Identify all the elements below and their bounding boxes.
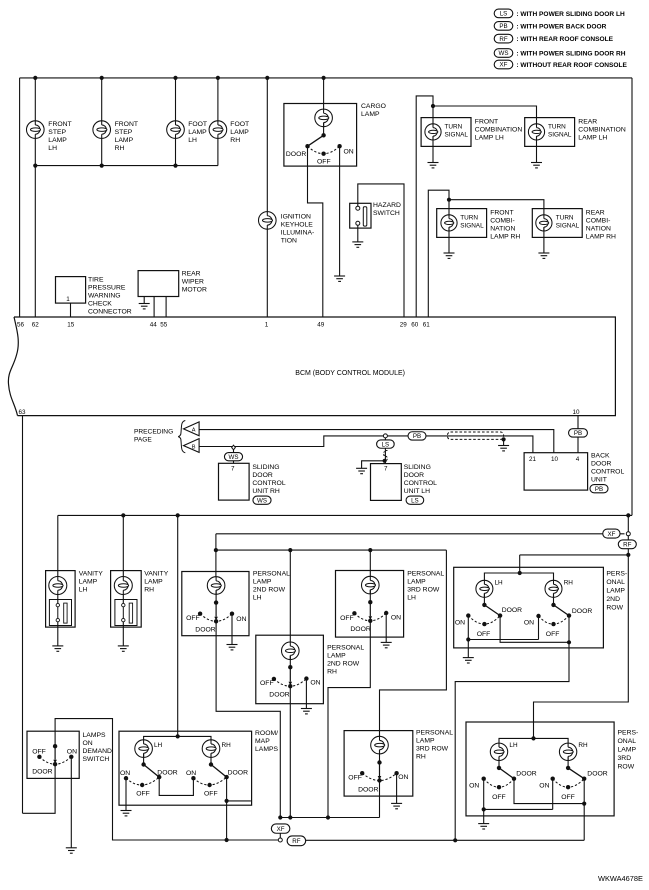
svg-text:LAMP LH: LAMP LH (475, 135, 504, 142)
svg-text:TURN: TURN (556, 214, 574, 221)
svg-text:ON: ON (186, 770, 196, 777)
wire rear combination RH to ground (543, 227, 545, 253)
wire personal lamp 3rd row RH DOOR output (379, 781, 381, 818)
connector tag WS below sliding door control unit RH (253, 496, 271, 504)
3rd row assembly switch LH common (497, 766, 501, 770)
svg-text:LS: LS (411, 497, 419, 504)
svg-text:PERS-: PERS- (618, 730, 639, 737)
diagram code label (598, 874, 643, 883)
wire 2nd row assembly ON contacts link (468, 616, 538, 640)
foot lamp LH (167, 121, 207, 144)
BCM pin 49 (317, 322, 325, 329)
room map switch RH common (209, 762, 213, 766)
wire foot lamp LH column (175, 78, 177, 166)
svg-text:: WITHOUT REAR ROOF CONSOLE: : WITHOUT REAR ROOF CONSOLE (515, 62, 628, 69)
node junction personal lamp 2nd row RH feed (288, 548, 292, 552)
wire personal lamp 2nd row RH feed (289, 550, 291, 646)
2nd row assembly switch RH DOOR contact (567, 608, 593, 618)
wire vanity lamp RH to ground (122, 622, 124, 646)
3rd row assembly switch RH ON contact (539, 777, 555, 790)
svg-text:: WITH POWER BACK DOOR: : WITH POWER BACK DOOR (515, 23, 607, 30)
svg-text:: WITH POWER SLIDING DOOR RH: : WITH POWER SLIDING DOOR RH (515, 50, 626, 57)
vanity lamp RH bulb (114, 577, 132, 595)
svg-text:REAR: REAR (586, 210, 605, 217)
2nd row assembly switch LH blade (484, 605, 500, 616)
svg-text:FOOT: FOOT (188, 121, 207, 128)
wire XF tag to circle node (279, 833, 281, 838)
rear wiper motor (138, 271, 207, 297)
svg-text:LAMP: LAMP (327, 653, 346, 660)
personal lamp 2nd row RH box (256, 635, 365, 704)
svg-text:PERS-: PERS- (606, 571, 627, 578)
svg-text:RF: RF (499, 36, 507, 43)
svg-text:15: 15 (67, 322, 75, 329)
svg-text:RF: RF (623, 542, 631, 549)
svg-text:BACK: BACK (591, 453, 610, 460)
svg-text:RH: RH (416, 754, 426, 761)
svg-text:LAMP RH: LAMP RH (586, 234, 616, 241)
3rd row assembly switch LH DOOR contact (512, 771, 537, 781)
svg-text:LAMPS: LAMPS (83, 732, 107, 739)
3rd row assembly switch RH common (566, 766, 570, 770)
ground personal lamp 3rd row RH (391, 803, 402, 808)
wire personal lamp 3rd row LH ON to ground (385, 613, 387, 642)
svg-text:7: 7 (384, 466, 388, 473)
node junction right rail bus 1 (626, 513, 630, 517)
BCM pin 56 (17, 322, 25, 329)
wire 2nd row assembly LH lamp to RH lamp switch (553, 593, 555, 605)
connector tag PB inline on wire B (408, 432, 426, 440)
personal lamp 3rd row LH bulb (362, 576, 380, 594)
node junction front combination LH feed (431, 104, 435, 108)
svg-text:SIGNAL: SIGNAL (548, 132, 572, 139)
wire rear wiper motor to BCM pin 55 (165, 297, 167, 318)
3rd row assembly switch LH blade (499, 768, 514, 779)
connector tag LS below sliding door control unit LH (406, 496, 424, 504)
node junction rail at personal lamp feed line (626, 553, 630, 557)
wire 2nd row assembly DOOR contacts link (500, 616, 569, 643)
svg-text:DOOR: DOOR (587, 771, 607, 778)
shield dashed box on wire B (448, 432, 504, 439)
ground sliding door control unit LH (356, 468, 367, 473)
svg-text:OFF: OFF (477, 631, 491, 638)
wire BCM pin 61 to turn signal RH feed (428, 190, 449, 317)
svg-text:FRONT: FRONT (475, 119, 498, 126)
wire lower power bus 2 (216, 533, 625, 535)
wire cargo lamp to switch common (323, 123, 325, 136)
wire personal lamp 3rd row RH ON to ground (396, 773, 398, 803)
node junction room map DOOR on lamps-on-demand line (225, 838, 229, 842)
node junction ignition keyhole feed (265, 76, 269, 80)
svg-text:7: 7 (231, 466, 235, 473)
sliding door control unit LH box (371, 464, 438, 501)
svg-text:PERSONAL: PERSONAL (416, 730, 453, 737)
node junction 2nd row assembly DOOR output (567, 640, 571, 644)
svg-text:XF: XF (277, 826, 285, 833)
ground vanity lamp RH (118, 646, 129, 651)
svg-text:A: A (192, 428, 196, 434)
wire left edge to BCM pin 56 (19, 78, 21, 317)
room map switch RH blade (211, 765, 227, 778)
personal lamp 2nd row RH switch dashed arc (274, 679, 307, 687)
room map lamp RH bulb (202, 740, 231, 758)
wire bus 3 to personal lamp 3rd row RH (380, 550, 447, 740)
svg-text:LAMP: LAMP (144, 579, 163, 586)
personal lamp 3rd row LH switch blade (369, 602, 373, 620)
svg-text:UNIT RH: UNIT RH (252, 488, 280, 495)
node junction front step RH bottom bus (100, 164, 104, 168)
svg-text:PRESSURE: PRESSURE (88, 285, 126, 292)
personal lamp 2nd row LH switch blade (214, 603, 218, 621)
svg-text:LAMP: LAMP (416, 738, 435, 745)
svg-text:WS: WS (257, 497, 267, 504)
svg-text:RH: RH (230, 137, 240, 144)
personal lamp 2nd row RH switch ON contact (304, 676, 320, 686)
wire 2nd row assembly LH lamp to switch (483, 593, 485, 605)
svg-text:CONNECTOR: CONNECTOR (88, 309, 132, 316)
wire front to rear combination RH (449, 200, 544, 219)
node junction cargo lamp feed (322, 76, 326, 80)
svg-text:MOTOR: MOTOR (182, 287, 207, 294)
svg-text:CARGO: CARGO (361, 103, 386, 110)
svg-text:PB: PB (574, 430, 582, 437)
svg-text:ON: ON (455, 619, 465, 626)
svg-text:ONAL: ONAL (606, 579, 625, 586)
ground rear combination lamp LH (531, 163, 542, 168)
node junction 2nd row assembly feed split (518, 571, 522, 575)
ground room map lamps (121, 811, 132, 816)
legend connector tag PB (494, 22, 606, 31)
wire XF RF node down through RF (627, 536, 629, 555)
wire front step lamp RH column (101, 78, 103, 166)
connector tag PB on pin 10 wire (569, 429, 588, 437)
wire room map lamp LH to switch (143, 753, 145, 764)
svg-text:LAMP: LAMP (115, 137, 134, 144)
node junction DOOR bus at 3rd row LH output (326, 815, 330, 819)
wire lower DOOR line to 3rd row box output (306, 839, 585, 841)
lamps on demand switch DOOR contact (32, 762, 57, 776)
connector tag WS on drop (224, 453, 242, 461)
room map switch RH ON contact (186, 770, 196, 780)
ground personal lamp 3rd row LH (381, 642, 392, 647)
wire personal lamp 2nd row RH DOOR output (289, 686, 291, 817)
wire cargo lamp feed (323, 78, 325, 113)
wire A to back door control unit pin 10 (199, 430, 554, 453)
wire rail to lamps on demand switch DOOR contact (23, 764, 56, 813)
wire personal lamp 2nd row LH feed (215, 550, 217, 581)
wire shield drain to ground (503, 439, 505, 445)
BCM pin 15 (67, 322, 75, 329)
svg-text:21: 21 (529, 456, 537, 463)
rear combination lamp LH box (525, 118, 626, 147)
node junction room map feed split (176, 734, 180, 738)
ground personal lamp 3rd row assembly (478, 824, 489, 829)
node junction room map lamps feed (176, 513, 180, 517)
wire room map lamps feed (177, 515, 179, 736)
svg-text:OFF: OFF (260, 680, 274, 687)
BCM pin 29 (400, 322, 408, 329)
wire front combination RH to ground (448, 227, 450, 253)
svg-text:3RD ROW: 3RD ROW (407, 587, 440, 594)
svg-text:RH: RH (327, 669, 337, 676)
svg-text:ON: ON (398, 774, 408, 781)
personal lamp 2nd row LH switch OFF contact (186, 612, 202, 623)
wire personal lamp 3rd row RH to switch (379, 750, 381, 763)
wire 2nd row assembly feed split to lamps (484, 573, 553, 584)
svg-text:DOOR: DOOR (269, 692, 289, 699)
wire personal lamp 2nd row feed line (520, 554, 629, 556)
svg-text:DOOR: DOOR (195, 626, 215, 633)
BCM (body control module) box (8, 317, 615, 416)
svg-text:LAMP: LAMP (48, 137, 67, 144)
BCM pin 63 (19, 409, 27, 416)
BCM pin 10 (573, 409, 581, 416)
2nd row assembly switch RH ON contact (524, 614, 541, 627)
personal lamp 3rd row LH switch dashed arc (354, 613, 386, 621)
wire personal lamp 2nd row assembly feed (519, 555, 521, 573)
svg-text:BCM (BODY CONTROL MODULE): BCM (BODY CONTROL MODULE) (295, 370, 405, 377)
svg-text:LS: LS (500, 11, 508, 18)
personal lamp 3rd row RH switch dashed arc (362, 773, 396, 780)
svg-text:DOOR: DOOR (228, 769, 248, 776)
lamps on demand switch box (27, 731, 112, 778)
svg-text:DOOR: DOOR (516, 771, 536, 778)
svg-text:PB: PB (595, 486, 603, 493)
svg-text:DOOR: DOOR (252, 472, 272, 479)
svg-text:WS: WS (229, 454, 239, 461)
svg-text:DOOR: DOOR (32, 769, 52, 776)
room map switch RH DOOR contact (224, 769, 248, 779)
svg-text:CONTROL: CONTROL (591, 469, 624, 476)
lamps on demand switch blade (53, 746, 57, 763)
svg-text:STEP: STEP (115, 129, 133, 136)
svg-text:LH: LH (495, 580, 504, 587)
svg-text:RH: RH (144, 587, 154, 594)
cargo lamp switch common (321, 133, 325, 137)
ground shield drain (498, 446, 509, 451)
wire room map DOOR output stub (227, 800, 251, 802)
wire personal lamp 3rd row LH feed (369, 550, 371, 580)
wire LS drop to sliding door control unit LH (384, 438, 386, 464)
wire 3rd row assembly DOOR output to lower DOOR line (583, 804, 585, 841)
wire personal lamp 2nd row RH to switch (289, 656, 291, 668)
svg-text:56: 56 (17, 322, 25, 329)
svg-text:LH: LH (509, 742, 518, 749)
rear combination lamp RH turn signal bulb (536, 215, 552, 231)
BCM pin 44 (150, 322, 158, 329)
room map switch LH OFF and dashed arc (126, 777, 159, 797)
personal lamp 3rd row RH box (344, 730, 453, 797)
cargo lamp switch DOOR contact (286, 144, 310, 158)
svg-text:ON: ON (310, 680, 320, 687)
svg-text:DOOR: DOOR (404, 472, 424, 479)
svg-text:PRECEDING: PRECEDING (134, 429, 173, 436)
ground rear wiper motor (139, 304, 150, 309)
node junction front step LH bottom bus (33, 164, 37, 168)
svg-text:4: 4 (576, 456, 580, 463)
personal lamp 3rd row assembly box (466, 722, 638, 816)
personal lamp 3rd row LH box (336, 571, 445, 638)
svg-text:OFF: OFF (317, 158, 331, 165)
lamps on demand switch dashed arc (39, 757, 71, 764)
svg-text:PAGE: PAGE (134, 437, 152, 444)
personal lamp 3rd row LH switch OFF contact (340, 611, 356, 622)
personal lamp 3rd row RH switch common (377, 760, 381, 764)
inline connector symbol above pin 7 of LH unit (383, 451, 387, 462)
svg-text:SLIDING: SLIDING (252, 464, 279, 471)
svg-text:OFF: OFF (136, 790, 150, 797)
front combination lamp RH box (437, 209, 521, 241)
personal lamp 3rd row RH switch DOOR contact (358, 778, 382, 793)
wire rear combination LH to ground (536, 136, 538, 162)
room map switch LH common (141, 762, 145, 766)
personal lamp 2nd row assembly RH bulb (545, 580, 573, 598)
wire personal lamp 2nd row LH DOOR output (216, 621, 280, 817)
svg-text:LAMP: LAMP (253, 579, 272, 586)
svg-text:PB: PB (413, 433, 421, 440)
ground personal lamp 2nd row RH (301, 709, 312, 714)
wire DOOR outputs bus (280, 817, 379, 819)
arrow B from preceding page (184, 439, 200, 453)
svg-text:UNIT LH: UNIT LH (404, 488, 430, 495)
svg-text:LH: LH (48, 145, 57, 152)
ground hazard switch (352, 242, 363, 247)
connector tag LS on drop (377, 440, 395, 448)
cargo lamp box (284, 103, 386, 166)
node junction foot lamp LH top (173, 76, 177, 80)
svg-text:KEYHOLE: KEYHOLE (281, 222, 314, 229)
wire BCM pin 63 left rail (22, 416, 24, 814)
wire BCM pin 29 to hazard switch (358, 184, 404, 317)
wire rear wiper motor to BCM pin 44 (153, 297, 155, 318)
cargo lamp bulb (315, 109, 333, 127)
node junction DOOR bus at 2nd row LH output (278, 815, 282, 819)
svg-text:DEMAND: DEMAND (83, 748, 113, 755)
svg-text:OFF: OFF (32, 748, 46, 755)
personal lamp 3rd row assembly RH bulb (559, 742, 588, 761)
svg-text:UNIT: UNIT (591, 477, 607, 484)
vanity lamp LH bulb (49, 577, 67, 595)
svg-text:LAMPS: LAMPS (255, 746, 279, 753)
svg-text:: WITH POWER SLIDING DOOR LH: : WITH POWER SLIDING DOOR LH (515, 11, 625, 18)
svg-text:XF: XF (607, 531, 615, 538)
node junction personal lamp 3rd row LH feed (368, 548, 372, 552)
personal lamp 3rd row RH switch blade (378, 763, 382, 780)
wire lower power bus 3 (216, 549, 447, 551)
svg-text:ON: ON (391, 614, 401, 621)
svg-text:COMBINATION: COMBINATION (475, 127, 523, 134)
cargo lamp switch dashed arc with OFF (308, 146, 340, 165)
ground front combination lamp RH (444, 253, 455, 258)
svg-text:PERSONAL: PERSONAL (253, 571, 290, 578)
front step lamp RH (93, 121, 138, 152)
svg-text:RH: RH (578, 742, 588, 749)
svg-text:ON: ON (236, 616, 246, 623)
svg-text:RH: RH (564, 580, 574, 587)
svg-text:TION: TION (281, 238, 297, 245)
svg-text:LAMP RH: LAMP RH (490, 234, 520, 241)
rear combination lamp LH turn signal bulb (528, 124, 544, 140)
svg-text:ON: ON (83, 740, 93, 747)
svg-text:COMBI-: COMBI- (490, 218, 515, 225)
wire room map lamp RH to switch (210, 753, 212, 764)
BCM pin 62 (32, 322, 40, 329)
svg-text:62: 62 (32, 322, 40, 329)
svg-text:SWITCH: SWITCH (83, 756, 110, 763)
svg-text:61: 61 (423, 322, 431, 329)
personal lamp 2nd row RH switch common (288, 665, 292, 669)
svg-text:B: B (192, 444, 196, 450)
vanity lamp RH box (111, 571, 169, 628)
personal lamp 2nd row LH bulb (207, 577, 225, 595)
svg-text:49: 49 (317, 322, 325, 329)
node junction front combination RH feed (447, 198, 451, 202)
svg-text:2ND ROW: 2ND ROW (253, 587, 286, 594)
node junction lower DOOR line at 2nd row box output (453, 838, 457, 842)
svg-text:NATION: NATION (490, 226, 515, 233)
wire 3rd row assembly RH lamp to switch (567, 757, 569, 768)
2nd row assembly switch LH common (482, 603, 486, 607)
BCM pin 1 (265, 322, 269, 329)
room map lamp LH bulb (135, 740, 163, 758)
wire 3rd row assembly LH lamp to switch (498, 757, 500, 768)
room map switch LH ON contact (120, 770, 130, 780)
wire cargo DOOR contact to BCM pin 49 (308, 146, 323, 317)
ground lamps on demand switch (66, 848, 77, 853)
svg-text:3RD ROW: 3RD ROW (416, 746, 449, 753)
ignition keyhole illumination lamp (259, 212, 315, 245)
connector tag RF below XF circle (618, 540, 636, 549)
svg-text:DOOR: DOOR (157, 769, 177, 776)
hazard switch (350, 202, 401, 228)
3rd row assembly switch LH OFF and dashed arc (484, 779, 514, 802)
wire ignition keyhole column to BCM pin 1 (266, 78, 268, 317)
wire 3rd row assembly DOOR contacts link (514, 779, 584, 804)
wire 3rd row assembly ON link to ground (483, 809, 485, 823)
svg-text:TURN: TURN (460, 214, 478, 221)
svg-text:ON: ON (469, 782, 479, 789)
svg-text:WS: WS (499, 50, 509, 57)
legend connector tag RF (494, 34, 613, 43)
svg-text:2ND ROW: 2ND ROW (327, 661, 360, 668)
wire foot lamp RH column (217, 78, 219, 166)
svg-text:LAMP: LAMP (230, 129, 249, 136)
wire lamps on demand output (55, 719, 278, 840)
svg-text:RH: RH (115, 145, 125, 152)
svg-text:LAMP: LAMP (407, 579, 426, 586)
svg-text:PERSONAL: PERSONAL (327, 645, 364, 652)
wire vanity lamp RH feed (122, 515, 124, 580)
legend connector tag LS (494, 9, 625, 18)
room map lamps box (119, 730, 279, 805)
svg-text:ROW: ROW (618, 764, 635, 771)
node junction 3rd row assembly ON ground (482, 807, 486, 811)
svg-text:44: 44 (150, 322, 158, 329)
svg-text:SIGNAL: SIGNAL (556, 223, 580, 230)
svg-text:LH: LH (253, 595, 262, 602)
svg-text:CONTROL: CONTROL (252, 480, 285, 487)
personal lamp 2nd row RH switch blade (289, 667, 293, 685)
svg-text:CONTROL: CONTROL (404, 480, 437, 487)
node junction 3rd row assembly feed split (531, 736, 535, 740)
svg-text:TURN: TURN (445, 123, 463, 130)
svg-text:OFF: OFF (348, 774, 362, 781)
svg-text:DOOR: DOOR (591, 461, 611, 468)
svg-text:LH: LH (154, 742, 163, 749)
svg-text:WARNING: WARNING (88, 293, 121, 300)
personal lamp 2nd row assembly box (454, 567, 627, 648)
node junction foot lamp RH top (216, 76, 220, 80)
